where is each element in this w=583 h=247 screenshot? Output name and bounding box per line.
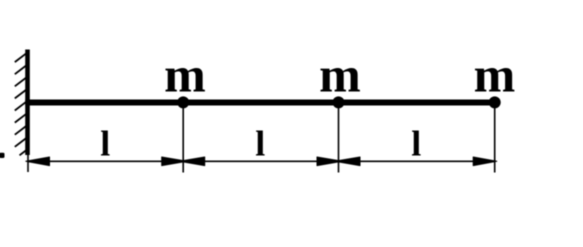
svg-text:m: m	[474, 46, 516, 102]
extension line below mass 2	[338, 103, 340, 173]
mass 2	[333, 96, 345, 108]
mass 3	[489, 96, 501, 108]
extension line below mass 1	[182, 103, 184, 173]
beam	[25, 100, 495, 106]
svg-text:l: l	[255, 124, 265, 164]
dimension line	[28, 160, 495, 162]
extension line below mass 3	[494, 103, 496, 173]
edge artifact blob	[0, 153, 5, 158]
arrowhead left at mass 1	[179, 157, 204, 166]
svg-text:m: m	[319, 46, 361, 102]
arrowhead right at mass 2	[317, 157, 342, 166]
svg-text:l: l	[100, 124, 110, 164]
svg-text:l: l	[411, 124, 421, 164]
arrowhead right at mass 3	[473, 157, 497, 166]
arrowhead left at wall	[26, 157, 50, 166]
wall line	[25, 50, 30, 156]
arrowhead left at mass 2	[335, 157, 360, 166]
svg-text:m: m	[164, 46, 206, 102]
arrowhead right at mass 1	[162, 157, 187, 166]
extension line below wall	[27, 155, 29, 172]
wall hatching	[15, 53, 27, 156]
mass 1	[177, 96, 189, 108]
